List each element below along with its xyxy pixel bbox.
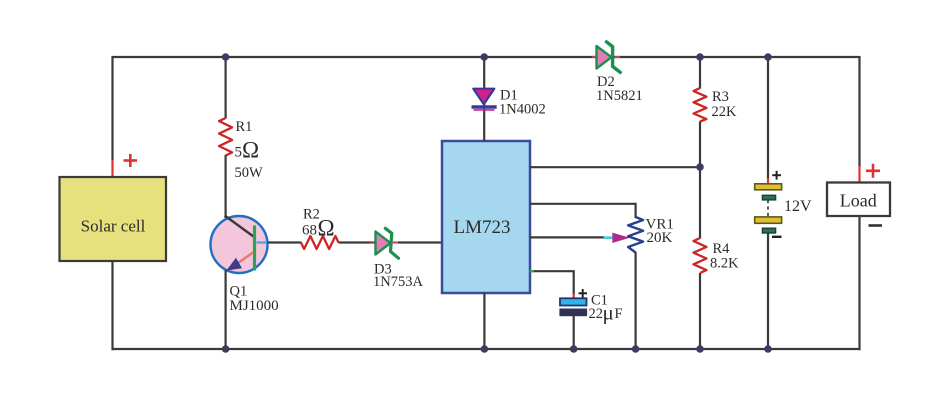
wire Q1 emitter to bottom rail (225, 270, 227, 350)
wire R1 branch top (225, 57, 227, 119)
wire right rail lower (load bottom) (858, 216, 860, 350)
label R4 8.2K (710, 241, 739, 272)
label R3 22K (712, 89, 738, 120)
svg-text:50W: 50W (235, 165, 264, 181)
label Q1 MJ1000 (230, 284, 279, 315)
resistor R4 (694, 238, 707, 273)
svg-text:F: F (615, 306, 623, 322)
potentiometer VR1 wiper arrow (612, 233, 630, 243)
svg-text:1N4002: 1N4002 (499, 102, 546, 118)
svg-text:μ: μ (603, 301, 614, 325)
node R3-R4 / pin A (696, 163, 704, 171)
svg-text:12V: 12V (784, 198, 812, 215)
wire pin D to C1 (534, 271, 574, 294)
wire LM723 pin B to VR1 top (530, 204, 636, 218)
node bottom rail / R4 (696, 345, 704, 353)
wire R4 to bottom rail (699, 273, 701, 350)
wire top rail to D1 (483, 57, 485, 89)
label D3 1N753A (373, 262, 423, 291)
svg-text:LM723: LM723 (454, 217, 511, 238)
transistor Q1 (211, 216, 269, 274)
battery BT1 12V (755, 184, 782, 233)
svg-text:R3: R3 (712, 89, 729, 105)
svg-text:Solar cell: Solar cell (81, 217, 146, 236)
node top rail / R1 (222, 53, 230, 61)
wire left rail lower (solar cell bottom) (111, 261, 113, 350)
svg-text:Load: Load (840, 191, 877, 211)
load LD1 plus sign (866, 164, 880, 178)
wire top rail (113, 56, 860, 58)
wire R1 to Q1 collector (225, 155, 227, 218)
solar cell SC1 (60, 177, 167, 261)
node top rail / battery (764, 53, 772, 61)
node bottom rail / Q1 (222, 345, 230, 353)
label VR1 20K (646, 217, 674, 247)
label D1 1N4002 (499, 88, 546, 118)
load LD1 (827, 183, 890, 217)
svg-text:1N753A: 1N753A (373, 274, 423, 290)
wire top rail to battery (767, 57, 769, 179)
label R1 5ohm 50W (235, 119, 264, 181)
wire LM723 pin D green tick (530, 270, 535, 272)
wire right rail upper (load top) (858, 56, 860, 167)
wire C1 plus red tick (573, 294, 575, 299)
diode D2 1N5821 (597, 42, 621, 73)
battery BT1 minus sign (772, 236, 782, 238)
wire C1 to bottom rail (573, 316, 575, 351)
wire top rail to R3 (699, 57, 701, 89)
label C1 22uF (589, 293, 623, 325)
diode D3 zener 1N753A (376, 228, 399, 258)
battery BT1 plus sign (772, 171, 781, 180)
capacitor C1 22uF (560, 298, 587, 315)
svg-text:MJ1000: MJ1000 (230, 298, 279, 314)
wire solar cell red tick (111, 160, 113, 177)
wire battery plus red tick (767, 178, 769, 184)
svg-text:20K: 20K (647, 230, 673, 246)
wire D3 anode red tick (369, 241, 376, 243)
node bottom rail / C1 (570, 345, 578, 353)
wire D3 to LM723 (398, 241, 443, 243)
svg-text:Ω: Ω (242, 138, 259, 163)
load LD1 minus sign (869, 224, 883, 227)
node top rail / D1 (480, 53, 488, 61)
wire R2 to D3 (339, 241, 371, 243)
wire left rail upper (solar cell top) (111, 56, 113, 161)
node bottom rail / battery (764, 345, 772, 353)
op-amp U1 LM723 (442, 141, 530, 293)
label R2 68ohm (302, 207, 335, 241)
svg-text:22K: 22K (712, 104, 738, 120)
wire LM723 bottom pin (483, 293, 485, 350)
wire Q1 base to R2 (267, 241, 302, 243)
wire load red tick (858, 166, 860, 183)
wire D3 cathode red tick (392, 241, 398, 243)
label D2 1N5821 (596, 74, 643, 104)
svg-text:R1: R1 (236, 119, 253, 135)
wire LM723 pin A to R3/R4 junction (530, 166, 701, 168)
wire D2 cathode red tick (615, 56, 620, 58)
svg-text:22: 22 (589, 306, 604, 322)
wire bottom rail (113, 348, 861, 350)
svg-text:1N5821: 1N5821 (596, 88, 643, 104)
svg-text:5: 5 (235, 145, 243, 161)
node top rail / R3 (696, 53, 704, 61)
wire D2 anode red tick (592, 56, 597, 58)
solar cell plus sign (124, 154, 138, 167)
node bottom rail / LM723 (481, 345, 489, 353)
capacitor C1 plus sign (579, 289, 588, 298)
svg-text:68: 68 (302, 223, 317, 239)
resistor R2 (301, 236, 339, 249)
resistor R3 (694, 88, 707, 122)
diode D1 1N4002 (472, 89, 497, 110)
wire VR1 bottom to bottom rail (634, 252, 636, 350)
svg-text:8.2K: 8.2K (710, 256, 739, 272)
wire battery to bottom rail (767, 233, 769, 350)
node bottom rail / VR1 (632, 345, 640, 353)
wire R3 to junction (699, 122, 701, 239)
wire LM723 top pin (483, 104, 485, 141)
wire LM723 pin C (wiper) (530, 236, 605, 238)
potentiometer VR1 20K (628, 217, 643, 253)
wire wiper cyan segment (604, 236, 614, 239)
svg-text:Ω: Ω (318, 216, 335, 241)
resistor R1 (219, 118, 232, 156)
